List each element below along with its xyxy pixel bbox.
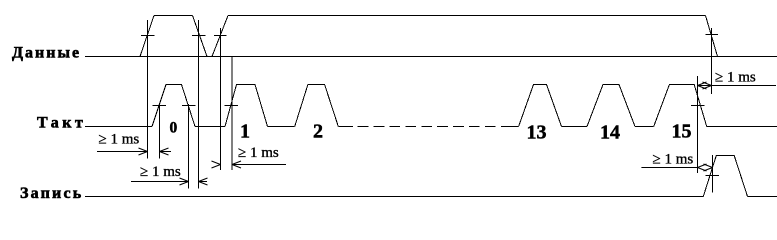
svg-text:≥ 1 ms: ≥ 1 ms bbox=[238, 145, 279, 161]
wire: Запись baseline left bbox=[85, 196, 703, 198]
clock pulse 2 bbox=[295, 85, 339, 127]
dimension D5 ≥1ms (Такт p15 fall to Запись rise) bbox=[641, 164, 712, 171]
clock pulse 0 bbox=[152, 85, 195, 127]
svg-text:14: 14 bbox=[600, 122, 620, 144]
tick on pulse 15 falling edge bbox=[691, 105, 705, 107]
svg-text:0: 0 bbox=[170, 120, 178, 137]
label Данные bbox=[12, 45, 81, 62]
svg-text:≥ 1 ms: ≥ 1 ms bbox=[140, 164, 181, 180]
wire: Такт baseline segment 7 bbox=[635, 126, 654, 128]
wire: Данные pulse A falling edge bbox=[193, 16, 208, 57]
node label 1 bbox=[240, 121, 250, 143]
label Запись bbox=[20, 185, 83, 202]
wire: Такт baseline segment 2 bbox=[195, 126, 225, 128]
dimension D1 ≥1ms (Данные rise A to Такт p0 rise) bbox=[97, 148, 171, 155]
clock pulse 13 bbox=[519, 85, 562, 127]
wire: Такт dashed continuation bbox=[358, 126, 512, 128]
svg-text:Данные: Данные bbox=[12, 45, 81, 62]
wire: Запись baseline right bbox=[748, 196, 777, 198]
dimension extension line V7 (Такт p15 fall) bbox=[697, 76, 699, 173]
tick on Данные fall B bbox=[706, 34, 719, 36]
dimension extension line V4 (Данные fall A) bbox=[198, 20, 200, 189]
node label 13 bbox=[527, 122, 547, 144]
tick on pulse 1 rising edge bbox=[225, 105, 239, 107]
dimension extension line V9 (Запись rise) bbox=[712, 155, 714, 193]
wire: Данные baseline bbox=[85, 56, 777, 58]
svg-text:2: 2 bbox=[313, 121, 323, 143]
dimension extension line V1 (Данные rise A) bbox=[147, 20, 149, 159]
wire: Данные pulse B falling edge bbox=[706, 16, 718, 57]
wire: Данные pulse B top bbox=[228, 15, 706, 17]
tick on Запись rising edge bbox=[706, 175, 720, 177]
dimension D2 ≥1ms (Такт p0 fall to Данные fall A) bbox=[131, 178, 208, 185]
dimension extension line V5 (Данные rise B) bbox=[220, 28, 222, 170]
wire: Данные pulse A top bbox=[154, 15, 193, 17]
dimension extension line V6 (Такт p1 rise) bbox=[231, 56, 233, 170]
wire: Такт baseline segment 3 bbox=[268, 126, 295, 128]
svg-text:1: 1 bbox=[240, 121, 250, 143]
tick on pulse 0 rising edge bbox=[153, 105, 167, 107]
label Такт bbox=[37, 115, 86, 132]
wire: Такт baseline segment 5 bbox=[512, 126, 519, 128]
wire: Такт baseline segment 4 bbox=[338, 126, 353, 128]
Запись pulse bbox=[703, 156, 747, 197]
dimension extension line V8 (Данные fall B) bbox=[711, 28, 713, 94]
wire: Такт baseline segment 1 bbox=[85, 126, 152, 128]
node label 2 bbox=[313, 121, 323, 143]
clock pulse 15 bbox=[654, 85, 707, 127]
svg-text:≥ 1 ms: ≥ 1 ms bbox=[99, 132, 140, 148]
svg-text:13: 13 bbox=[527, 122, 547, 144]
dimension D4 ≥1ms (Такт p15 fall to Данные fall B) bbox=[698, 82, 777, 89]
wire: Такт baseline segment 8 bbox=[707, 126, 777, 128]
clock pulse 1 bbox=[225, 85, 268, 127]
dimension D3 ≥1ms (Данные rise B to Такт p1 rise) bbox=[212, 161, 287, 168]
tick on Данные rise A bbox=[141, 35, 155, 37]
svg-text:Запись: Запись bbox=[20, 185, 83, 202]
wire: Данные pulse B rising edge bbox=[212, 16, 228, 57]
svg-text:15: 15 bbox=[672, 121, 692, 143]
tick on Данные fall A bbox=[192, 35, 206, 37]
tick on Данные rise B bbox=[214, 35, 227, 37]
tick on pulse 0 falling edge bbox=[182, 105, 196, 107]
node label 14 bbox=[600, 122, 620, 144]
svg-text:≥ 1 ms: ≥ 1 ms bbox=[715, 70, 756, 86]
wire: Такт baseline segment 6 bbox=[562, 126, 588, 128]
clock pulse 14 bbox=[587, 85, 635, 127]
svg-text:≥ 1 ms: ≥ 1 ms bbox=[653, 152, 694, 168]
dimension extension line V3 (Такт p0 fall) bbox=[188, 104, 190, 189]
svg-text:Такт: Такт bbox=[37, 115, 86, 132]
node label 0 bbox=[170, 120, 178, 137]
dimension extension line V2 (Такт p0 rise) bbox=[159, 103, 161, 159]
node label 15 bbox=[672, 121, 692, 143]
wire: Данные pulse A rising edge bbox=[140, 16, 154, 57]
